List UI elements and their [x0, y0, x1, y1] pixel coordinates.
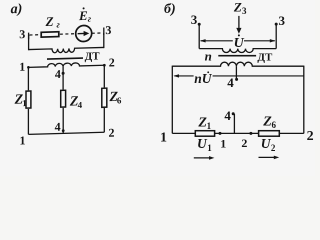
wire bottom (a): [28, 132, 104, 134]
dimension nU (voltage to tap): [173, 71, 303, 86]
transformer secondary winding (b, on long wire): [172, 62, 303, 66]
svg-text:1: 1: [207, 121, 212, 131]
svg-text:ДТ: ДТ: [257, 51, 273, 63]
terminal 3 (right): [104, 23, 112, 37]
impedance Z4: [61, 90, 83, 134]
node 4 tap (secondary centre): [55, 66, 65, 89]
wire left vertical (3 to primary): [28, 35, 30, 50]
wire dashed (source to right terminal): [92, 32, 103, 34]
node 1 (secondary left): [19, 60, 29, 74]
dimension U (voltage across 3-3): [200, 34, 275, 50]
transformer ДТ primary winding: [29, 47, 104, 53]
transformer core: [47, 57, 83, 60]
node 2 (secondary right): [103, 55, 115, 69]
svg-text:3: 3: [242, 6, 247, 16]
svg-text:ДТ: ДТ: [85, 50, 101, 62]
svg-text:1: 1: [220, 137, 226, 151]
svg-text:4: 4: [78, 100, 83, 110]
terminal 3 (right): [275, 13, 286, 28]
node 4 tap (b, from secondary): [227, 66, 238, 90]
wire left vertical (outer loop): [171, 66, 173, 134]
impedance Zг: [41, 14, 60, 38]
transformer secondary winding (center-tapped): [28, 62, 104, 67]
source Eг: [76, 7, 92, 42]
terminal 3 (left): [191, 12, 201, 27]
wire right vertical (outer loop): [303, 66, 305, 134]
svg-text:2: 2: [109, 126, 115, 140]
svg-text:n: n: [205, 48, 212, 63]
impedance Z6 (b): [259, 115, 280, 137]
svg-text:Z: Z: [45, 14, 54, 29]
svg-text:6: 6: [272, 120, 277, 130]
impedance Z1 (b): [195, 115, 214, 136]
svg-text:4: 4: [55, 67, 61, 81]
impedance Z3 (arrow pointer): [233, 0, 247, 34]
svg-text:4: 4: [227, 75, 234, 90]
svg-text:2: 2: [109, 55, 115, 69]
svg-text:а): а): [11, 2, 23, 17]
terminal 3 (left, generator side): [19, 27, 28, 41]
wire bottom (b): [172, 132, 303, 134]
svg-text:б): б): [164, 2, 176, 17]
svg-text:2: 2: [241, 136, 247, 150]
voltage U1 with arrow: [194, 136, 215, 160]
svg-text:6: 6: [117, 95, 122, 105]
svg-text:4: 4: [224, 108, 231, 123]
svg-text:U: U: [234, 36, 245, 51]
svg-text:1: 1: [19, 60, 25, 74]
svg-text:1: 1: [22, 98, 27, 108]
node 2 (b, on bottom wire): [241, 132, 252, 150]
svg-text:3: 3: [19, 27, 25, 41]
wire right vertical (3 down): [275, 24, 277, 48]
wire dashed (between Zг and source): [60, 33, 76, 35]
transformer ДТ primary winding (b): [199, 49, 276, 53]
svg-text:3: 3: [105, 23, 111, 37]
svg-text:1: 1: [20, 133, 26, 147]
node 4 stub (b, bottom): [224, 108, 234, 133]
svg-text:nU: nU: [194, 71, 213, 86]
svg-text:3: 3: [279, 13, 286, 28]
svg-text:Z: Z: [233, 0, 242, 14]
svg-text:2: 2: [271, 143, 276, 153]
wire dashed (generator branch left): [30, 34, 42, 36]
svg-text:2: 2: [307, 129, 314, 144]
svg-text:1: 1: [207, 143, 212, 153]
svg-text:3: 3: [191, 12, 198, 27]
transformer core (b): [218, 55, 256, 57]
node 1 (b, on bottom wire): [219, 132, 227, 151]
svg-text:1: 1: [160, 130, 167, 145]
svg-text:4: 4: [55, 120, 61, 134]
impedance Z1: [14, 67, 31, 134]
wire right vertical (3 to primary): [103, 33, 105, 48]
voltage U2 with arrow: [259, 136, 280, 159]
svg-text:E: E: [78, 8, 88, 23]
wire left vertical (3 down): [198, 24, 200, 48]
impedance Z6: [102, 65, 122, 133]
